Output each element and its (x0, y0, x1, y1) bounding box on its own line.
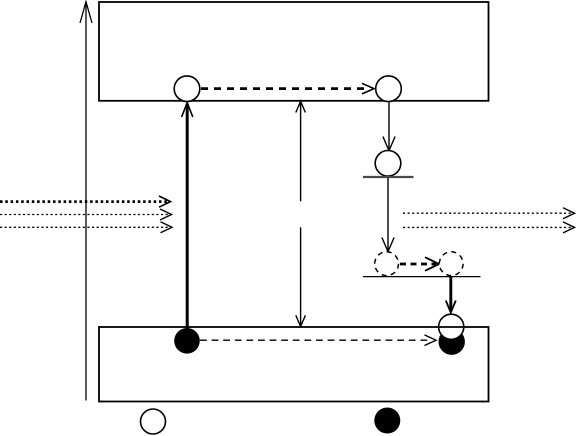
energy axis (80, 2, 92, 401)
electron in conduction band left (174, 76, 200, 102)
electron recombining (open circle on band edge) (439, 314, 464, 339)
electron in conduction band right (376, 76, 402, 102)
incident photon thin 2 (0, 222, 172, 233)
lower trap level (363, 276, 481, 278)
electron on upper trap level (375, 151, 401, 177)
trapped electron right (dashed circle) (439, 252, 463, 276)
incident photon bold (0, 196, 171, 207)
conduction band (99, 2, 489, 101)
hopping arrow between traps (bold dashed) (400, 257, 439, 271)
legend electron (open circle) (141, 409, 166, 434)
valence band edge over circle (438, 326, 465, 328)
relaxation arrow to lower trap level (382, 178, 394, 252)
hole migration dashed arrow (200, 335, 436, 346)
trapped electron left (dashed circle) (375, 252, 399, 276)
hole in valence band left (filled) (174, 328, 200, 354)
upper trap level (363, 176, 414, 178)
recombination arrow to valence band (bold) (446, 277, 456, 313)
electron relaxation in conduction band (dashed arrow) (201, 83, 374, 94)
valence band (99, 327, 489, 402)
capture arrow to upper trap level (383, 102, 395, 151)
emitted photon 2 (403, 222, 575, 233)
pump transition arrow (182, 103, 193, 340)
incident photon thin 1 (0, 209, 172, 220)
hole in valence band right (filled, under open circle) (439, 329, 465, 355)
emitted photon 1 (403, 208, 575, 219)
band gap dimension arrow (296, 101, 306, 326)
legend hole (filled circle) (374, 408, 400, 434)
